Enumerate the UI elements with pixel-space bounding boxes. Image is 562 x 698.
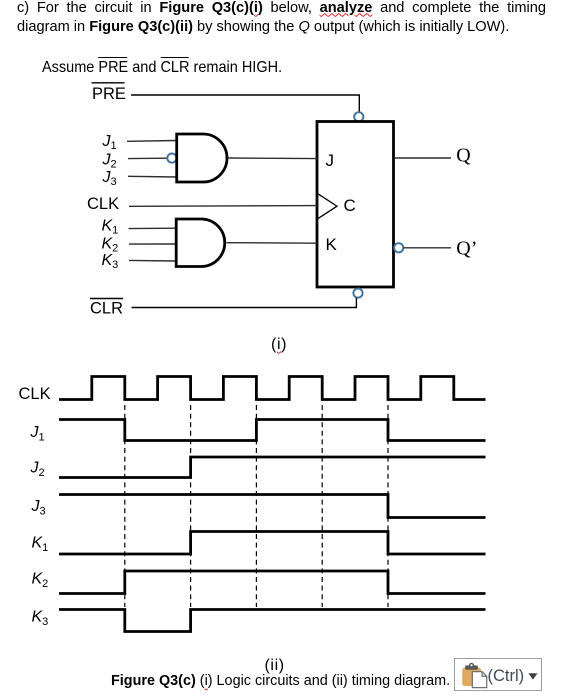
wire Q' output xyxy=(403,247,451,249)
svg-text:K3: K3 xyxy=(102,252,119,271)
AND gate G2 (K inputs) xyxy=(176,219,225,267)
label K2 xyxy=(32,571,49,591)
K1 waveform xyxy=(59,532,486,555)
svg-text:Q: Q xyxy=(456,145,471,167)
AND gate G1 (J inputs) xyxy=(177,134,227,182)
label (i) xyxy=(271,337,287,353)
label PRE xyxy=(92,83,126,103)
preset bubble (active-low PRE) xyxy=(354,112,363,121)
dashed guide line t3 xyxy=(255,405,257,607)
label J3 xyxy=(31,498,46,518)
CLK waveform xyxy=(59,377,486,400)
svg-text:J2: J2 xyxy=(102,152,117,171)
paste options button xyxy=(454,658,542,691)
clock edge triangle xyxy=(318,194,337,219)
clear bubble (active-low CLR) xyxy=(353,289,362,298)
JK flip-flop U1 body xyxy=(317,122,394,288)
pin label J xyxy=(326,151,335,170)
caption xyxy=(111,674,450,688)
label K1 xyxy=(102,218,119,237)
wire G1 output to J pin xyxy=(227,157,317,160)
svg-text:CLK: CLK xyxy=(87,195,119,213)
J1 waveform xyxy=(59,420,486,441)
svg-text:K3: K3 xyxy=(32,609,49,629)
svg-text:CLK: CLK xyxy=(19,385,51,403)
svg-text:K2: K2 xyxy=(32,571,49,591)
svg-text:J: J xyxy=(326,151,335,170)
assume line xyxy=(42,60,282,76)
J2 waveform xyxy=(59,457,486,478)
label K3 xyxy=(102,252,119,271)
label Q xyxy=(456,145,471,167)
dashed guide line t2 xyxy=(190,405,192,607)
dashed guide line t4 xyxy=(321,405,323,607)
wire J1 to AND gate xyxy=(127,140,176,143)
wire K2 to AND gate xyxy=(129,243,176,245)
label Q' xyxy=(456,237,477,259)
K3 waveform xyxy=(59,610,486,632)
svg-text:J3: J3 xyxy=(31,498,46,518)
complement bubble on Q' xyxy=(394,243,403,252)
svg-text:CLR: CLR xyxy=(90,300,123,318)
label (ii) xyxy=(265,658,285,674)
circuit schematic xyxy=(0,0,562,360)
J3 waveform xyxy=(59,495,486,518)
connector node on J2 input xyxy=(167,154,176,163)
pin label C xyxy=(344,196,356,215)
svg-text:K: K xyxy=(326,235,338,254)
wire K3 to AND gate xyxy=(129,259,176,262)
svg-text:K1: K1 xyxy=(102,218,119,237)
label CLK xyxy=(19,385,51,403)
dashed guide line t1 xyxy=(124,405,126,607)
label K3 xyxy=(32,609,49,629)
svg-text:J1: J1 xyxy=(102,133,117,152)
svg-text:Q’: Q’ xyxy=(456,237,477,259)
timing diagram xyxy=(0,360,562,660)
dropdown arrow xyxy=(528,673,537,679)
label J1 xyxy=(102,133,117,152)
svg-text:C: C xyxy=(344,196,356,215)
svg-text:J2: J2 xyxy=(30,460,45,480)
wire CLK to C pin xyxy=(129,205,317,208)
label J2 xyxy=(102,152,117,171)
label J3 xyxy=(102,169,117,188)
wire PRE to flip-flop preset xyxy=(131,95,359,112)
pin label K xyxy=(326,235,338,254)
label K1 xyxy=(32,535,49,555)
clipboard icon xyxy=(462,663,487,688)
dashed guide line t5 xyxy=(387,405,389,607)
paragraph text xyxy=(17,0,546,37)
wire K1 to AND gate xyxy=(129,227,177,229)
K2 waveform xyxy=(59,571,486,594)
label K2 xyxy=(102,236,119,255)
svg-text:J1: J1 xyxy=(30,424,45,444)
label J1 xyxy=(30,424,45,444)
wire J2 to AND gate xyxy=(128,157,167,159)
wire J3 to AND gate xyxy=(128,175,176,178)
svg-text:J3: J3 xyxy=(102,169,117,188)
svg-text:PRE: PRE xyxy=(92,85,126,103)
wire Q output xyxy=(394,157,451,159)
label CLR xyxy=(90,299,123,318)
label CLK xyxy=(87,195,119,213)
(Ctrl) text xyxy=(487,667,524,685)
wire CLR to flip-flop clear xyxy=(132,298,357,308)
svg-text:K1: K1 xyxy=(32,535,49,555)
label J2 xyxy=(30,460,45,480)
svg-text:(Ctrl): (Ctrl) xyxy=(487,667,524,685)
wire G2 output to K pin xyxy=(227,242,317,245)
